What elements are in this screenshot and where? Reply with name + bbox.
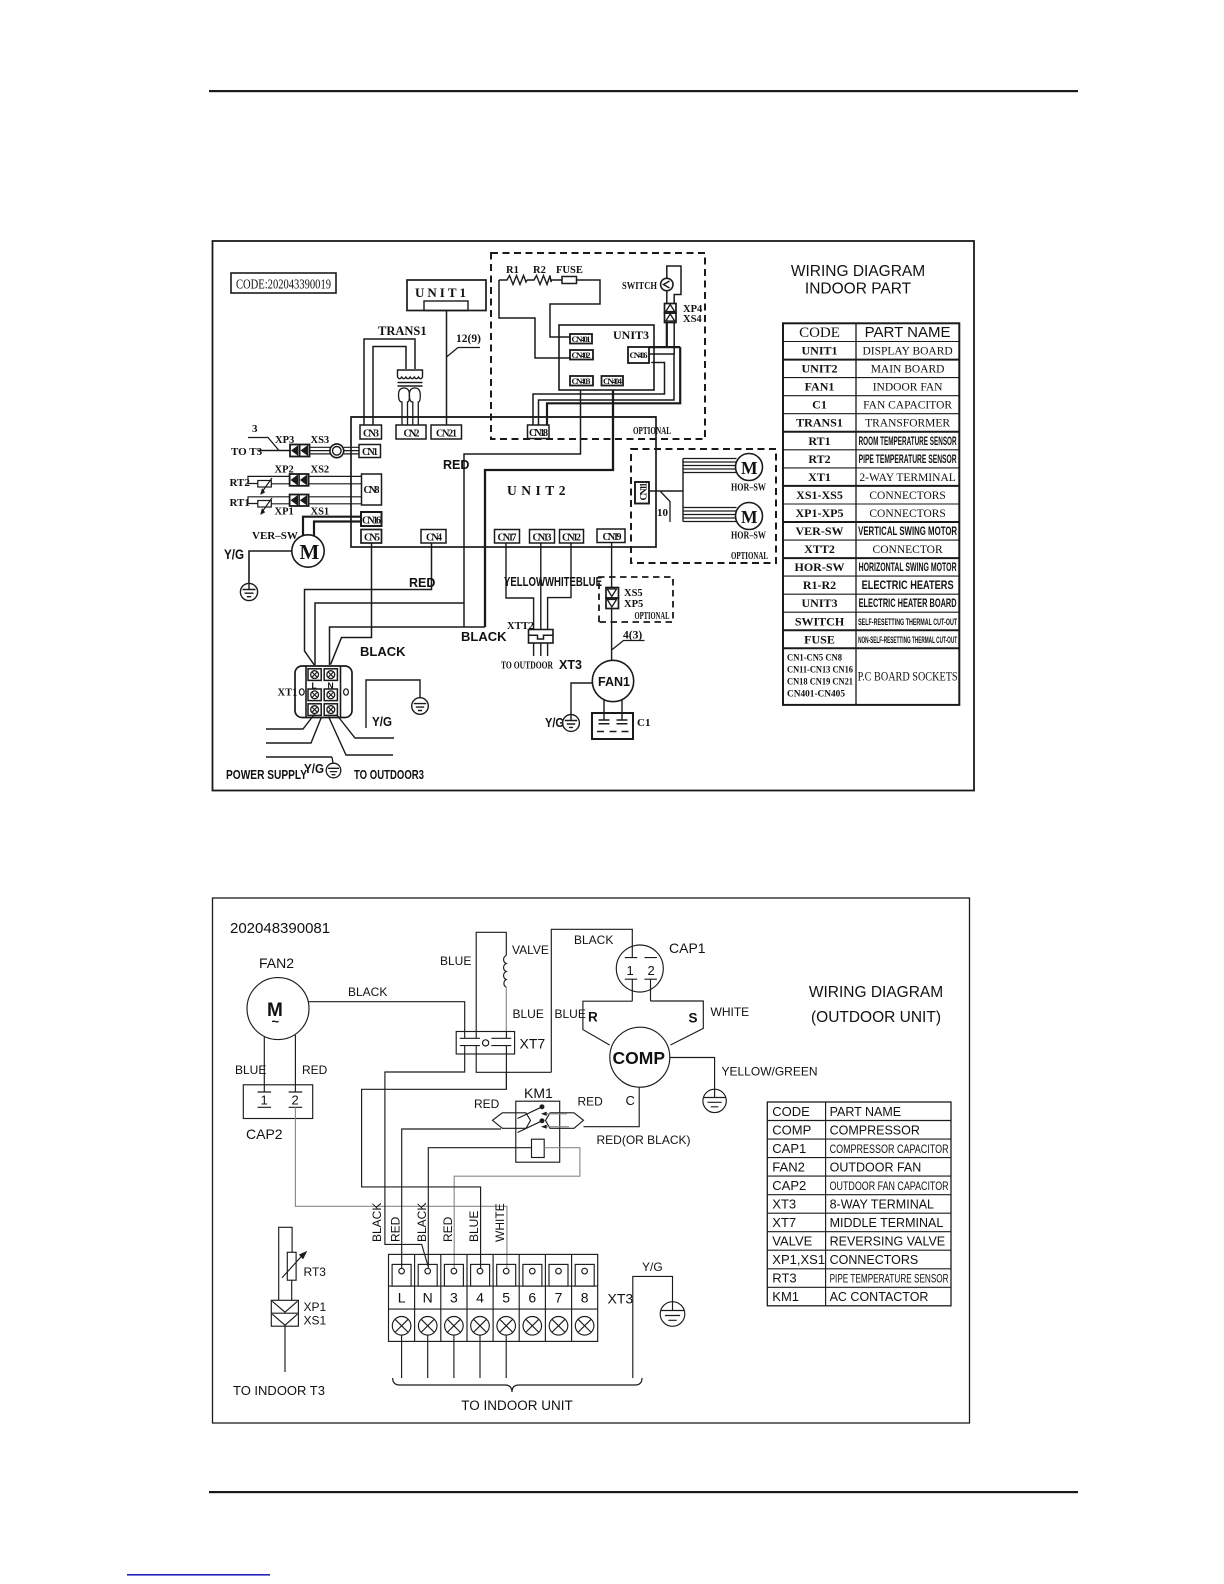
- svg-text:1: 1: [261, 1093, 268, 1108]
- svg-text:CN3: CN3: [363, 429, 379, 440]
- svg-text:RED: RED: [409, 576, 435, 590]
- svg-text:8: 8: [581, 1290, 589, 1306]
- fan FAN1: [592, 660, 633, 701]
- motor VER-SW: [252, 530, 324, 567]
- footer blue line: [127, 1574, 270, 1576]
- socket CN4: [421, 530, 446, 544]
- svg-text:CN2: CN2: [404, 429, 420, 440]
- svg-text:TRANS1: TRANS1: [796, 416, 843, 430]
- svg-text:BLACK: BLACK: [360, 644, 406, 659]
- optional box heater: [491, 253, 705, 439]
- svg-text:OPTIONAL: OPTIONAL: [731, 551, 768, 562]
- svg-text:HOR-SW: HOR-SW: [794, 560, 844, 574]
- svg-text:PIPE TEMPERATURE SENSOR: PIPE TEMPERATURE SENSOR: [830, 1272, 949, 1286]
- connector XP2 XS2: [275, 465, 330, 486]
- svg-text:R2: R2: [533, 265, 546, 276]
- svg-text:CN401-CN405: CN401-CN405: [787, 689, 845, 699]
- wire KM1 coil to N: [428, 1148, 531, 1268]
- svg-text:CAP1: CAP1: [669, 940, 706, 956]
- wire bundle upper motor: [683, 459, 738, 473]
- wire CN11 to bus: [649, 490, 683, 492]
- wire Y/G to ground and brace: [633, 1276, 673, 1378]
- wire switch loop: [667, 266, 681, 304]
- motor HOR-SW lower: [731, 503, 766, 542]
- connector XP1 XS1: [275, 495, 330, 518]
- svg-text:TRANS1: TRANS1: [378, 324, 427, 338]
- socket CN16: [361, 512, 382, 527]
- svg-text:VALVE: VALVE: [512, 943, 549, 957]
- svg-text:UNIT2: UNIT2: [507, 483, 570, 498]
- wire CN5 to XT1 N: [331, 543, 372, 665]
- svg-text:Y/G: Y/G: [642, 1260, 663, 1274]
- svg-text:TO T3: TO T3: [231, 446, 263, 458]
- svg-text:R1: R1: [506, 265, 519, 276]
- socket CN402: [570, 350, 593, 360]
- wire FAN2 black to XT7: [308, 1002, 465, 1039]
- svg-text:10: 10: [657, 507, 669, 519]
- svg-text:(OUTDOOR UNIT): (OUTDOOR UNIT): [811, 1009, 941, 1026]
- svg-text:RT1: RT1: [230, 497, 250, 509]
- wires XTT2 to outdoor: [534, 643, 548, 656]
- svg-text:XS2: XS2: [311, 465, 330, 476]
- svg-text:ELECTRIC HEATERS: ELECTRIC HEATERS: [862, 580, 954, 592]
- svg-text:XT1: XT1: [808, 470, 831, 484]
- ground (frame): [412, 698, 429, 715]
- svg-text:YELLOWWHITEBLUE: YELLOWWHITEBLUE: [504, 575, 602, 589]
- svg-text:FAN1: FAN1: [598, 675, 630, 689]
- svg-text:XT3: XT3: [772, 1196, 796, 1211]
- svg-text:L: L: [398, 1290, 406, 1306]
- svg-text:M: M: [741, 507, 758, 527]
- svg-text:12(9): 12(9): [456, 333, 481, 345]
- svg-text:CN1-CN5 CN8: CN1-CN5 CN8: [787, 653, 842, 663]
- svg-text:OPTIONAL: OPTIONAL: [633, 426, 671, 437]
- svg-text:BLUE: BLUE: [235, 1063, 266, 1077]
- svg-text:CN8: CN8: [364, 485, 380, 496]
- wire XT7 blue to terminal 4: [362, 1046, 507, 1268]
- socket CN3: [360, 425, 382, 440]
- connector XP1 XS1 outdoor: [271, 1300, 326, 1328]
- optional box HOR-SW: [631, 449, 776, 563]
- svg-text:CN404: CN404: [603, 376, 623, 386]
- svg-text:RED(OR BLACK): RED(OR BLACK): [597, 1133, 691, 1147]
- socket CN1: [359, 445, 381, 459]
- svg-text:XS3: XS3: [311, 435, 330, 446]
- svg-text:CN16: CN16: [362, 516, 381, 527]
- svg-text:COMPRESSOR CAPACITOR: COMPRESSOR CAPACITOR: [830, 1142, 949, 1156]
- socket CN13: [530, 530, 555, 544]
- svg-text:BLACK: BLACK: [415, 1203, 429, 1242]
- wires power supply left: [266, 714, 332, 757]
- svg-text:OUTDOOR FAN: OUTDOOR FAN: [830, 1160, 922, 1174]
- svg-text:R1-R2: R1-R2: [803, 578, 836, 592]
- motor HOR-SW upper: [731, 454, 766, 494]
- svg-text:RED: RED: [578, 1095, 604, 1109]
- wire KM1 contact red to L: [402, 1129, 501, 1268]
- svg-text:4(3): 4(3): [623, 630, 642, 642]
- wire XS2 to CN8: [309, 476, 362, 483]
- svg-text:FUSE: FUSE: [556, 265, 583, 276]
- socket CN12: [560, 530, 584, 544]
- svg-text:WIRING DIAGRAM: WIRING DIAGRAM: [791, 263, 925, 280]
- svg-text:RED: RED: [441, 1216, 455, 1242]
- socket CN19: [597, 529, 625, 543]
- svg-text:2: 2: [292, 1093, 299, 1108]
- svg-text:RT1: RT1: [808, 434, 830, 448]
- svg-text:XP1-XP5: XP1-XP5: [796, 506, 844, 520]
- wire-count tick 4(3): [612, 630, 645, 651]
- svg-text:KM1: KM1: [524, 1085, 553, 1101]
- wire-count tick 10: [657, 492, 670, 523]
- svg-text:3: 3: [252, 423, 258, 435]
- svg-text:RT2: RT2: [230, 477, 251, 489]
- svg-text:INDOOR FAN: INDOOR FAN: [873, 382, 943, 394]
- svg-text:ELECTRIC HEATER BOARD: ELECTRIC HEATER BOARD: [859, 598, 957, 610]
- rotated wire labels: [370, 1203, 507, 1242]
- main board UNIT2: [351, 417, 656, 547]
- wire XS4 pin B: [539, 323, 675, 426]
- svg-text:RT3: RT3: [772, 1271, 796, 1286]
- wire CN17 yellow: [506, 543, 534, 630]
- wires FAN2 to CAP2: [264, 1035, 295, 1085]
- svg-text:UNIT1: UNIT1: [415, 285, 469, 300]
- wire CN19 down through XS5 XP5 to FAN1: [611, 543, 613, 661]
- svg-text:UNIT1: UNIT1: [801, 344, 837, 358]
- svg-text:CONNECTORS: CONNECTORS: [830, 1253, 919, 1267]
- display board UNIT1: [407, 280, 486, 311]
- wire CAP2 white to terminal 5: [295, 1107, 507, 1268]
- svg-text:CN11-CN13 CN16: CN11-CN13 CN16: [787, 665, 853, 675]
- svg-text:XT1: XT1: [278, 688, 298, 699]
- wire COMP C to KM1: [584, 1087, 640, 1127]
- resistor R1: [505, 265, 527, 285]
- heater wire loop left: [499, 280, 600, 358]
- svg-text:8-WAY TERMINAL: 8-WAY TERMINAL: [830, 1197, 934, 1211]
- svg-text:XS5: XS5: [624, 588, 643, 599]
- svg-text:~: ~: [272, 1014, 280, 1029]
- svg-text:CN5: CN5: [364, 533, 380, 544]
- svg-text:COMP: COMP: [772, 1122, 811, 1137]
- svg-text:1: 1: [627, 963, 634, 978]
- svg-text:XP3: XP3: [275, 435, 294, 446]
- bottom horizontal rule: [209, 1491, 1078, 1493]
- wire bundle lower motor: [683, 508, 738, 522]
- svg-text:CAP1: CAP1: [772, 1141, 806, 1156]
- wire frame Y/G right of XT1: [366, 680, 420, 728]
- svg-text:ROOM TEMPERATURE SENSOR: ROOM TEMPERATURE SENSOR: [859, 436, 957, 448]
- svg-text:M: M: [741, 458, 758, 478]
- wire CAP1-2 to S banner: [650, 979, 652, 1001]
- svg-text:BLACK: BLACK: [348, 985, 387, 999]
- ground (outdoor Y/G): [660, 1302, 685, 1327]
- svg-text:OPTIONAL: OPTIONAL: [635, 611, 670, 622]
- svg-text:2: 2: [648, 963, 655, 978]
- svg-text:WHITE: WHITE: [711, 1005, 750, 1019]
- svg-text:VER-SW: VER-SW: [795, 524, 843, 538]
- wire CN13 white: [540, 543, 542, 630]
- svg-text:CN19: CN19: [603, 532, 622, 543]
- ground (power supply): [326, 763, 341, 778]
- svg-text:BLUE: BLUE: [440, 954, 471, 968]
- wire CN12 blue: [548, 543, 571, 630]
- svg-text:UNIT2: UNIT2: [801, 362, 837, 376]
- switch SWITCH: [622, 278, 673, 292]
- svg-text:CAP2: CAP2: [246, 1126, 283, 1142]
- wires to outdoor right: [329, 715, 395, 756]
- wire COMP to ground: [670, 1058, 715, 1090]
- svg-text:BLACK: BLACK: [461, 629, 507, 644]
- socket CN406: [628, 347, 649, 363]
- svg-text:FAN1: FAN1: [805, 380, 835, 394]
- svg-text:202048390081: 202048390081: [230, 920, 330, 937]
- svg-text:VER–SW: VER–SW: [252, 530, 298, 542]
- svg-text:XP1,XS1: XP1,XS1: [772, 1252, 825, 1267]
- wire motor to ground: [249, 551, 292, 584]
- svg-text:TO INDOOR UNIT: TO INDOOR UNIT: [461, 1398, 573, 1413]
- svg-text:CN13: CN13: [533, 533, 552, 544]
- socket CN17: [495, 530, 520, 544]
- svg-text:XS4: XS4: [683, 314, 702, 325]
- svg-text:HOR–SW: HOR–SW: [731, 531, 766, 542]
- svg-text:FAN CAPACITOR: FAN CAPACITOR: [863, 400, 952, 412]
- wire-count tick 12(9): [447, 333, 482, 357]
- terminal banner R: [583, 1001, 632, 1045]
- wire UNIT1 to CN21: [446, 311, 448, 426]
- ground (COMP): [703, 1089, 726, 1112]
- wire XT7 black to N: [385, 1046, 465, 1266]
- svg-text:CN403: CN403: [572, 376, 591, 386]
- svg-text:SWITCH: SWITCH: [795, 614, 845, 628]
- table indoor parts: [783, 323, 959, 705]
- svg-text:Y/G: Y/G: [304, 761, 324, 776]
- svg-text:4: 4: [476, 1290, 484, 1306]
- wire branch L: [315, 603, 464, 665]
- ground (FAN1): [563, 715, 580, 732]
- svg-text:FAN2: FAN2: [259, 955, 294, 971]
- svg-text:6: 6: [528, 1290, 536, 1306]
- wire branch N: [330, 627, 486, 665]
- svg-text:SELF-RESETTING THERMAL CUT-OUT: SELF-RESETTING THERMAL CUT-OUT: [858, 617, 957, 628]
- svg-text:XT7: XT7: [772, 1215, 796, 1230]
- wire KM1 coil to terminal 3: [454, 1148, 580, 1268]
- socket CN401: [570, 334, 592, 344]
- bus wire indoor: [351, 416, 656, 418]
- svg-text:CODE: CODE: [799, 325, 840, 341]
- svg-text:BLACK: BLACK: [574, 933, 613, 947]
- svg-text:PIPE TEMPERATURE SENSOR: PIPE TEMPERATURE SENSOR: [859, 454, 957, 466]
- wire bundle bus hor-sw: [682, 459, 684, 522]
- brace to indoor unit: [393, 1378, 642, 1392]
- transformer TRANS1: [364, 324, 427, 425]
- sensor RT2: [230, 476, 291, 494]
- socket CN2: [396, 425, 426, 440]
- wire CAP1-1 to R banner: [631, 979, 633, 1001]
- svg-text:UNIT3: UNIT3: [801, 596, 837, 610]
- svg-text:CAP2: CAP2: [772, 1178, 806, 1193]
- svg-text:3: 3: [450, 1290, 458, 1306]
- svg-text:Y/G: Y/G: [372, 714, 392, 729]
- svg-text:TRANSFORMER: TRANSFORMER: [865, 418, 950, 430]
- svg-text:COMP: COMP: [613, 1048, 666, 1068]
- socket CN11: [635, 482, 650, 504]
- svg-text:HOR–SW: HOR–SW: [731, 483, 766, 494]
- svg-text:RED: RED: [474, 1097, 500, 1111]
- svg-text:CN21: CN21: [436, 429, 457, 440]
- terminal block XT1: [278, 666, 353, 718]
- wire CN4 red to XT1 L: [305, 543, 432, 665]
- svg-text:BLUE: BLUE: [467, 1211, 481, 1242]
- terminal XT7: [456, 1032, 545, 1055]
- ground (VER-SW): [240, 583, 257, 600]
- fan FAN2: [247, 955, 309, 1040]
- svg-text:RED: RED: [302, 1063, 328, 1077]
- svg-text:COMPRESSOR: COMPRESSOR: [830, 1123, 920, 1137]
- svg-text:C: C: [626, 1093, 635, 1108]
- svg-text:CONNECTOR: CONNECTOR: [873, 544, 943, 556]
- wire CN406 bottom to CN18: [533, 363, 665, 426]
- svg-text:CN406: CN406: [630, 350, 648, 360]
- svg-text:INDOOR PART: INDOOR PART: [805, 281, 912, 298]
- svg-text:CN4: CN4: [426, 533, 442, 544]
- svg-text:CN11: CN11: [640, 482, 650, 500]
- svg-text:YELLOW/GREEN: YELLOW/GREEN: [722, 1065, 818, 1079]
- svg-text:RED: RED: [443, 458, 469, 472]
- svg-text:NON-SELF-RESETTING THERMAL CUT: NON-SELF-RESETTING THERMAL CUT-OUT: [858, 635, 957, 646]
- node 3 wire tick to T3: [248, 423, 279, 451]
- svg-text:CN1: CN1: [362, 447, 378, 458]
- svg-text:SWITCH: SWITCH: [622, 281, 657, 292]
- wires strip to indoor unit: [401, 1335, 403, 1378]
- svg-text:OUTDOOR FAN CAPACITOR: OUTDOOR FAN CAPACITOR: [830, 1179, 949, 1193]
- socket CN8: [362, 474, 382, 505]
- svg-text:VALVE: VALVE: [772, 1234, 812, 1249]
- svg-text:N: N: [423, 1290, 433, 1306]
- connector XS4: [665, 313, 703, 325]
- svg-text:XP5: XP5: [624, 599, 643, 610]
- svg-text:MAIN BOARD: MAIN BOARD: [871, 364, 945, 376]
- svg-text:RT3: RT3: [304, 1265, 327, 1279]
- socket CN5: [361, 530, 382, 544]
- wire valve junction: [476, 1046, 551, 1090]
- svg-text:REVERSING VALVE: REVERSING VALVE: [830, 1235, 946, 1249]
- svg-text:TO INDOOR T3: TO INDOOR T3: [233, 1383, 325, 1398]
- top horizontal rule: [209, 90, 1078, 92]
- svg-text:POWER SUPPLY: POWER SUPPLY: [226, 767, 307, 782]
- indoor diagram frame: [213, 241, 975, 791]
- svg-text:PART NAME: PART NAME: [830, 1105, 902, 1119]
- svg-text:PART NAME: PART NAME: [865, 324, 951, 341]
- svg-text:UNIT3: UNIT3: [613, 328, 649, 342]
- wire FAN1 to ground: [571, 683, 593, 715]
- terminal banner S: [651, 1001, 704, 1045]
- socket CN18: [528, 425, 550, 439]
- svg-text:BLUE: BLUE: [513, 1007, 544, 1021]
- svg-text:5: 5: [502, 1290, 510, 1306]
- svg-text:Y/G: Y/G: [545, 715, 564, 730]
- capacitor CAP2: [243, 1085, 312, 1142]
- svg-text:M: M: [300, 540, 320, 564]
- svg-text:XP1: XP1: [275, 507, 294, 518]
- svg-text:XP1: XP1: [304, 1300, 327, 1314]
- svg-text:TO OUTDOOR: TO OUTDOOR: [501, 660, 554, 672]
- connector XS5 XP5: [606, 588, 643, 611]
- svg-text:RED: RED: [389, 1216, 403, 1242]
- wire triple XS3 to joint: [310, 447, 331, 454]
- svg-text:BLUE: BLUE: [555, 1007, 586, 1021]
- svg-text:TO OUTDOOR3: TO OUTDOOR3: [354, 767, 424, 782]
- svg-text:XS1-XS5: XS1-XS5: [796, 488, 843, 502]
- svg-text:FAN2: FAN2: [772, 1159, 805, 1174]
- svg-text:7: 7: [555, 1290, 563, 1306]
- wire TO T3 to XP3: [258, 450, 291, 452]
- svg-text:KM1: KM1: [772, 1289, 799, 1304]
- socket CN404: [602, 376, 624, 386]
- svg-text:XT7: XT7: [520, 1036, 546, 1052]
- svg-text:CN18: CN18: [529, 428, 548, 439]
- svg-text:AC CONTACTOR: AC CONTACTOR: [830, 1290, 929, 1304]
- terminal strip XT3: [389, 1254, 634, 1341]
- title wiring diagram outdoor unit: [809, 984, 943, 1026]
- svg-text:P.C BOARD SOCKETS: P.C BOARD SOCKETS: [858, 668, 958, 683]
- svg-text:S: S: [689, 1011, 698, 1026]
- svg-text:MIDDLE TERMINAL: MIDDLE TERMINAL: [830, 1216, 944, 1230]
- svg-text:XTT2: XTT2: [507, 621, 534, 632]
- CODE:202043390019 label box: [231, 273, 336, 293]
- svg-text:C1: C1: [812, 398, 827, 412]
- valve VALVE reversing: [440, 932, 549, 1038]
- svg-text:XT3: XT3: [559, 658, 582, 672]
- svg-text:CN401: CN401: [572, 334, 591, 344]
- wire CN16 to VER-SW motor: [303, 517, 361, 536]
- fuse FUSE: [556, 265, 583, 284]
- capacitor C1: [592, 713, 650, 739]
- svg-text:VERTICAL SWING MOTOR: VERTICAL SWING MOTOR: [858, 526, 957, 538]
- connector XP4: [665, 304, 703, 316]
- svg-text:CN402: CN402: [572, 350, 591, 360]
- socket CN21: [431, 425, 462, 440]
- socket CN403: [570, 376, 593, 386]
- wire XS1 to CN8: [309, 497, 362, 504]
- sensor RT3: [279, 1227, 327, 1300]
- wire black cap1: [551, 929, 632, 1072]
- svg-text:CN18 CN19 CN21: CN18 CN19 CN21: [787, 677, 853, 687]
- svg-text:RT2: RT2: [808, 452, 830, 466]
- svg-text:CONNECTORS: CONNECTORS: [869, 490, 945, 502]
- svg-text:XP2: XP2: [275, 465, 294, 476]
- svg-text:XT3: XT3: [608, 1291, 634, 1307]
- wire XS4 pin A thick: [547, 323, 680, 426]
- sensor RT1: [230, 497, 291, 515]
- wire CN403 branch to XT1: [464, 391, 581, 628]
- svg-text:WHITE: WHITE: [493, 1203, 507, 1242]
- svg-text:FUSE: FUSE: [804, 632, 835, 646]
- svg-text:WIRING DIAGRAM: WIRING DIAGRAM: [809, 984, 943, 1001]
- svg-text:HORIZONTAL SWING MOTOR: HORIZONTAL SWING MOTOR: [859, 562, 957, 574]
- svg-text:XS1: XS1: [304, 1314, 327, 1328]
- svg-text:CN12: CN12: [562, 533, 581, 544]
- wire XS1 to indoor T3: [284, 1326, 286, 1372]
- svg-text:BLACK: BLACK: [370, 1203, 384, 1242]
- table outdoor parts: [767, 1102, 951, 1306]
- compressor COMP: [610, 1027, 670, 1087]
- connector XTT2: [507, 621, 553, 643]
- svg-text:CONNECTORS: CONNECTORS: [869, 508, 945, 520]
- svg-text:DISPLAY BOARD: DISPLAY BOARD: [862, 346, 952, 358]
- svg-text:XTT2: XTT2: [804, 542, 835, 556]
- svg-text:C1: C1: [637, 717, 650, 729]
- outdoor diagram frame: [213, 898, 970, 1423]
- wire CN404 thick black: [485, 391, 613, 628]
